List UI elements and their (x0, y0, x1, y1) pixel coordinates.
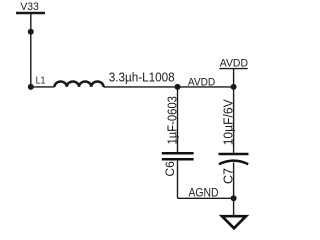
junction dot at C6 node (175, 84, 181, 90)
junction dot at C7 node (231, 84, 237, 90)
svg-text:AVDD: AVDD (188, 76, 215, 88)
wire to ground symbol (233, 198, 235, 216)
wire node to C6 (177, 87, 179, 153)
wire AVDD pin down to C7 (233, 69, 235, 153)
inductor L1 (36, 76, 104, 87)
ground (222, 216, 246, 228)
junction dot on V33 wire (28, 29, 34, 35)
junction dot at wire corner (28, 84, 34, 90)
svg-text:10µF/6V: 10µF/6V (221, 99, 236, 145)
svg-text:1µF-0603: 1µF-0603 (164, 96, 179, 145)
wire V33 vertical (30, 13, 32, 87)
net label AVDD (pin, underlined) (219, 58, 248, 70)
wire C6 to AGND (177, 159, 179, 198)
wire AGND horizontal (178, 197, 234, 199)
svg-text:AGND: AGND (189, 186, 219, 199)
wire C7 to AGND (233, 163, 235, 199)
wire L1 to AVDD node (104, 86, 234, 88)
svg-text:L1: L1 (36, 76, 46, 87)
wire to L1 (31, 86, 55, 88)
svg-text:3.3µh-L1008: 3.3µh-L1008 (109, 70, 175, 84)
svg-text:V33: V33 (20, 1, 39, 13)
net label V33 (16, 1, 45, 13)
capacitor C6 (162, 153, 194, 159)
svg-text:C6: C6 (163, 161, 177, 177)
svg-text:AVDD: AVDD (220, 58, 248, 70)
capacitor C7 (polarized) (219, 154, 249, 164)
junction dot at ground node (231, 195, 237, 201)
